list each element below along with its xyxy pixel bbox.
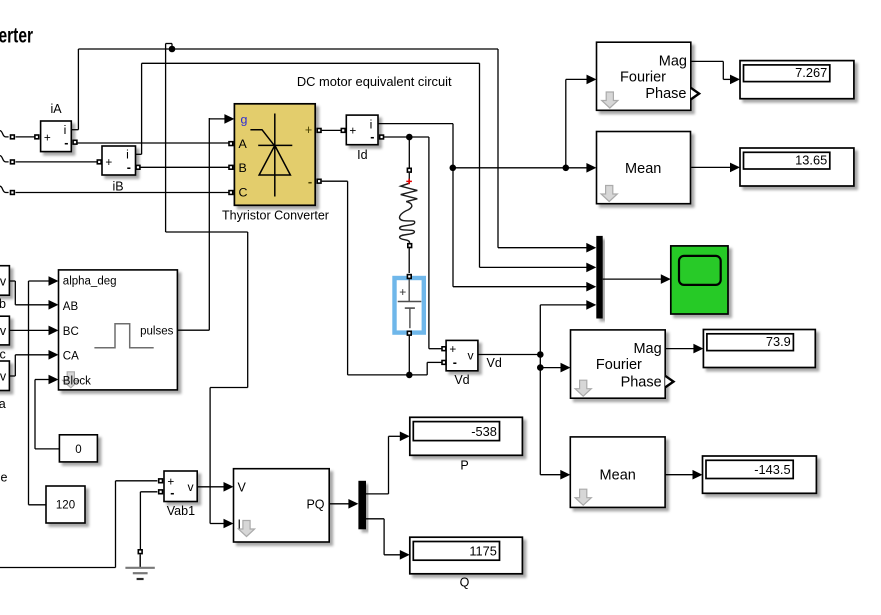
resistor R [401, 173, 418, 202]
wire demux out2 vertical [383, 519, 385, 555]
port thyristor B [228, 165, 233, 170]
svg-text:+: + [44, 131, 51, 145]
svg-text:v: v [0, 324, 7, 338]
svg-text:-: - [64, 136, 68, 150]
node junction Vd signal upper [537, 351, 544, 358]
svg-text:erter: erter [0, 25, 33, 48]
wire Vd to Fourier1 [540, 367, 562, 369]
wire Mean1 to display -143.5 [665, 474, 694, 476]
svg-text:v: v [187, 480, 194, 494]
wire into display 7.267 [723, 78, 731, 80]
svg-text:+: + [449, 342, 456, 356]
wire iA-to-PQ vertical mid [247, 232, 249, 388]
svg-text:13.65: 13.65 [795, 152, 827, 167]
svg-text:0: 0 [75, 444, 81, 456]
node junction Id-minus / RL top [406, 134, 413, 141]
wire iB i out stub [136, 153, 142, 155]
wire iA signal vertical up [77, 49, 79, 130]
port source minus [407, 331, 412, 336]
wire Vab1 minus to ground vertical [139, 492, 141, 549]
svg-text:Vd: Vd [487, 356, 502, 370]
inductor L [400, 202, 415, 244]
wire phase A source squiggle [0, 131, 9, 137]
wire into Vd plus [429, 348, 442, 350]
display 7.267 [740, 61, 854, 99]
port Fourier1 Phase unconnected [665, 376, 673, 388]
wire Id signal branch up to Fourier [565, 79, 567, 167]
DC voltage source E (selected) [395, 277, 424, 333]
svg-text:I: I [238, 517, 241, 531]
wire iB signal top run [142, 62, 480, 64]
synchronized 6-pulse generator [59, 270, 178, 390]
thyristor converter block [234, 104, 315, 206]
display 73.9 [703, 330, 815, 368]
port phase A [10, 134, 15, 139]
wire bottom node run [348, 374, 428, 376]
wire junction bump top [166, 43, 172, 45]
port phase B [10, 159, 15, 164]
svg-text:Vab: Vab [0, 297, 6, 311]
svg-text:-538: -538 [471, 424, 497, 439]
wire RL branch top stub [408, 137, 410, 168]
wire Mean to display 13.65 [691, 166, 731, 168]
wire 0-to-Block vertical [34, 380, 36, 449]
wire source-to-Vab1 vertical [115, 481, 117, 568]
svg-text:7.267: 7.267 [795, 65, 827, 80]
port phase C [10, 190, 15, 195]
svg-text:v: v [467, 348, 474, 362]
svg-text:Q: Q [460, 575, 470, 589]
wire Id signal to Fourier [566, 78, 588, 80]
wire thyristor minus vertical down [347, 181, 349, 375]
wire iA i out stub [71, 129, 78, 131]
svg-text:BC: BC [63, 326, 79, 338]
svg-text:Id: Id [357, 148, 367, 162]
voltage measurement Vab1 [158, 471, 197, 518]
svg-text:Fourier: Fourier [596, 357, 642, 373]
display 13.65 [740, 148, 854, 186]
wire Id minus to Vd plus vertical [428, 137, 430, 349]
svg-text:73.9: 73.9 [766, 334, 791, 349]
svg-text:C: C [239, 185, 248, 199]
wire Vab jog down to AB [14, 281, 16, 305]
Fourier1 block (Vd) [571, 330, 666, 398]
svg-text:alpha_deg: alpha_deg [63, 276, 117, 288]
svg-text:Mag: Mag [659, 54, 687, 70]
svg-text:+: + [399, 285, 406, 299]
wire into AB [15, 304, 50, 306]
wire into mux input 4 [540, 304, 587, 306]
wire iB signal vertical up [141, 63, 143, 154]
wire iA signal vertical to PQ current branch [165, 44, 167, 233]
display -143.5 [703, 456, 817, 493]
wire into Block [35, 379, 50, 381]
wire Id i signal out [378, 123, 453, 125]
wire Fourier1 Mag to display 73.9 [665, 348, 695, 350]
svg-text:i: i [126, 147, 129, 161]
svg-text:120: 120 [56, 500, 75, 512]
node junction Vd signal lower [537, 364, 544, 371]
wire source-to-node stub [408, 334, 410, 375]
wire bottom-left long run [0, 567, 116, 569]
wire Vab1 v to PQ V input [197, 486, 225, 488]
wire Vd to Mean1 [540, 474, 562, 476]
ground [125, 549, 154, 579]
wire phase B into iB [16, 161, 97, 163]
wire Id signal vertical down to mux input 3 [452, 124, 454, 287]
node junction iA/PQ branch [169, 46, 176, 53]
svg-text:CA: CA [63, 350, 79, 362]
wire junction bump stub [171, 44, 173, 50]
svg-text:-: - [308, 174, 312, 189]
label red plus of RL branch [406, 179, 412, 185]
current measurement iA [34, 102, 78, 152]
wire iA-to-PQ low run [210, 387, 248, 389]
constant 120 (alpha) [46, 486, 85, 523]
svg-text:pulses: pulses [140, 326, 173, 338]
svg-text:Mean: Mean [600, 468, 636, 484]
voltage measurement Vca (cut) [0, 361, 9, 411]
wire demux out1 [366, 493, 389, 495]
wire into mux input 2 [480, 266, 588, 268]
svg-text:Thyristor Converter: Thyristor Converter [222, 209, 329, 223]
wire node B1 to Vd minus vertical [426, 362, 428, 375]
wire constant 120 out [29, 504, 47, 506]
svg-text:v: v [0, 370, 7, 384]
wire into Vab1 minus [140, 491, 157, 493]
port thyristor A [228, 141, 233, 146]
svg-text:Phase: Phase [645, 86, 686, 102]
voltage measurement Vd [441, 340, 478, 387]
wire PQ to demux [329, 503, 350, 505]
wire iA-to-PQ mid run [166, 231, 248, 233]
svg-text:Vbc: Vbc [0, 347, 6, 361]
svg-text:-: - [127, 160, 131, 174]
wire Fourier Mag out [691, 60, 724, 62]
wire into CA [15, 354, 50, 356]
svg-text:Block: Block [63, 375, 91, 387]
wire Vab out stub [9, 280, 15, 282]
display Q value 1175 [410, 537, 523, 574]
wire pulses out [177, 329, 209, 331]
wire Vca out stub [9, 375, 15, 377]
svg-text:+: + [105, 155, 112, 169]
svg-text:A: A [239, 137, 248, 151]
wire phase B source squiggle [0, 156, 9, 162]
wire into Vab1 plus [116, 480, 158, 482]
wire iA signal vertical down to mux input 1 [497, 49, 499, 248]
wire into mux input 1 [498, 247, 588, 249]
Mean1 block (Vd) [570, 437, 665, 508]
demux [358, 481, 366, 530]
svg-text:Mean: Mean [625, 161, 661, 177]
wire into PQ I input [210, 523, 225, 525]
wire L-to-source stub [408, 248, 410, 273]
wire mux to scope [603, 278, 662, 280]
wire into display P [389, 435, 402, 437]
wire into BC [9, 329, 50, 331]
svg-text:v: v [0, 274, 7, 288]
wire iA-to-PQ vertical low [209, 388, 211, 524]
wire demux out1 vertical [388, 436, 390, 494]
wire Fourier Mag jog vertical [722, 61, 724, 79]
wire phase C into thyristor C [16, 192, 229, 194]
port thyristor minus [316, 179, 321, 184]
current measurement Id [341, 115, 385, 162]
svg-text:DC motor equivalent circuit: DC motor equivalent circuit [297, 74, 452, 89]
wire into mux input 3 [453, 286, 588, 288]
wire Vd signal vertical [539, 305, 541, 475]
port source plus [407, 274, 412, 279]
port Fourier Phase unconnected [691, 88, 699, 100]
port resistor top [407, 168, 412, 173]
svg-text:iB: iB [112, 180, 123, 194]
wire demux out2 [366, 518, 384, 520]
wire iB minus to thyristor B [140, 166, 228, 168]
svg-text:-: - [370, 130, 374, 144]
wire iA minus to thyristor A [77, 142, 229, 144]
svg-text:Mag: Mag [633, 341, 661, 357]
scope [671, 246, 728, 314]
node junction Fourier branch [563, 165, 570, 172]
node junction Id signal / Mean branch [450, 165, 457, 172]
wire phase C source squiggle [0, 186, 9, 192]
wire into display Q [384, 554, 401, 556]
svg-text:P: P [460, 459, 468, 473]
voltage measurement Vab (cut) [0, 266, 9, 311]
port inductor bottom [407, 243, 412, 248]
wire thyristor minus out [322, 180, 348, 182]
svg-text:g: g [241, 112, 248, 126]
wire 120-to-alpha vertical [28, 281, 30, 505]
wire iB signal vertical down to mux input 2 [479, 63, 481, 267]
wire Vca jog up to CA [14, 355, 16, 376]
svg-text:+: + [305, 123, 312, 137]
svg-text:+: + [349, 124, 356, 138]
svg-text:PQ: PQ [306, 497, 324, 511]
svg-text:Vca: Vca [0, 397, 6, 411]
svg-text:Vab1: Vab1 [167, 504, 195, 518]
wire phase A into iA [16, 136, 35, 138]
wire into alpha_deg [29, 280, 51, 282]
wire iA signal top run [78, 48, 498, 50]
svg-text:Vd: Vd [454, 373, 469, 387]
wire into Vd minus [427, 361, 441, 363]
svg-text:B: B [239, 161, 247, 175]
current measurement iB [97, 146, 141, 194]
wire Id signal to Mean [453, 167, 588, 169]
Mean block (Id) [597, 132, 691, 204]
mux [596, 236, 602, 319]
svg-text:AB: AB [63, 301, 79, 313]
svg-text:-: - [170, 486, 174, 500]
active & reactive power PQ [234, 469, 330, 542]
voltage measurement Vbc (cut) [0, 316, 9, 361]
wire pulses vertical up to thyristor gate [208, 118, 210, 330]
wire constant 0 out [35, 448, 59, 450]
svg-text:1175: 1175 [469, 544, 497, 559]
svg-text:Fourier: Fourier [620, 69, 666, 85]
port thyristor plus [316, 128, 321, 133]
svg-text:Phase: Phase [621, 374, 662, 390]
port thyristor C [228, 190, 233, 195]
svg-text:iA: iA [50, 102, 62, 116]
svg-text:-: - [453, 356, 457, 370]
display P value -538 [410, 417, 523, 455]
svg-text:-143.5: -143.5 [754, 462, 790, 477]
wire thyristor plus to Id plus [322, 129, 341, 131]
svg-text:V: V [238, 481, 247, 495]
wire pulses into gate g [209, 118, 226, 120]
node junction bottom bus [406, 372, 413, 379]
Fourier block (Id) [597, 42, 691, 110]
wire Id minus out [384, 136, 429, 138]
wire Vd signal out [478, 354, 540, 356]
constant 0 [59, 435, 97, 462]
svg-text:e: e [1, 471, 8, 485]
